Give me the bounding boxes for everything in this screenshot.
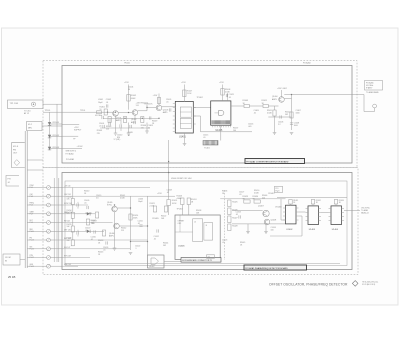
capacitor C1409 (86, 206, 88, 209)
svg-text:4.64K: 4.64K (131, 98, 136, 100)
svg-text:AMPL: AMPL (163, 111, 168, 114)
svg-text:.001: .001 (248, 126, 252, 128)
connector P1 edge lines (24, 131, 26, 268)
svg-text:CR1406: CR1406 (275, 207, 282, 209)
svg-text:TM 11-6625-2781-14-1: TM 11-6625-2781-14-1 (362, 281, 378, 283)
ground (127, 132, 131, 134)
svg-text:P1-7: P1-7 (30, 213, 33, 215)
svg-text:45.2 MHz: 45.2 MHz (95, 115, 102, 117)
wire bottom bus (65, 263, 340, 265)
svg-text:AMPL: AMPL (109, 234, 114, 237)
svg-text:P1-11: P1-11 (30, 231, 34, 233)
junction dots bottom (114, 204, 115, 205)
wire output (284, 97, 291, 99)
ground U1401 (183, 143, 187, 145)
svg-text:AMPL: AMPL (272, 98, 277, 101)
svg-text:J5 FM: J5 FM (5, 257, 11, 259)
wire mid vertical (147, 196, 149, 255)
capacitor C1444 (129, 125, 131, 128)
wire (148, 195, 176, 197)
capacitor C1401 (101, 116, 103, 119)
stub wires 2 (77, 202, 79, 204)
resistor R1405 (157, 98, 160, 104)
svg-text:.01: .01 (229, 97, 232, 99)
svg-text:+15V: +15V (124, 82, 129, 84)
svg-text:R1425: R1425 (232, 202, 237, 204)
wire attenuator out (42, 125, 62, 127)
pins U1402 (283, 207, 286, 209)
wire U1405 out (231, 105, 244, 107)
transistor Q1408 (264, 219, 270, 225)
svg-text:+15V: +15V (181, 82, 186, 84)
pins U1404 (329, 208, 332, 210)
svg-text:P/O A2A5 PHASE/FREQ DETECTOR B: P/O A2A5 PHASE/FREQ DETECTOR BOARD (245, 267, 288, 270)
outer dashed boundary top section (43, 61, 357, 168)
op-amp U1401 (175, 101, 193, 133)
wire (27, 169, 43, 171)
svg-text:10µH: 10µH (98, 102, 103, 104)
wire lower bus (100, 127, 150, 129)
svg-text:100: 100 (271, 230, 274, 232)
svg-text:TP101: TP101 (80, 110, 85, 112)
diamond symbol FM out (14, 160, 20, 166)
svg-text:U1407: U1407 (149, 266, 155, 268)
wire U1404 out (344, 210, 360, 212)
svg-text:.01: .01 (148, 127, 151, 129)
stub wires (109, 118, 111, 122)
svg-text:P/O A2A5: P/O A2A5 (66, 158, 74, 161)
wire (164, 261, 181, 263)
FM output bracket J3 (12, 143, 25, 168)
svg-text:.01: .01 (84, 203, 87, 205)
resistor R1431 (289, 200, 292, 205)
svg-text:2.15K: 2.15K (150, 205, 155, 207)
svg-text:SYNC 142: SYNC 142 (64, 203, 72, 205)
svg-text:AT J2: AT J2 (24, 112, 30, 115)
wire (27, 265, 46, 267)
svg-text:U1404: U1404 (332, 229, 339, 231)
terminal TP1 (31, 102, 35, 106)
wire (72, 188, 74, 199)
svg-text:.01: .01 (236, 214, 239, 216)
svg-text:4.64K: 4.64K (254, 193, 259, 195)
wire Q1402 out (138, 110, 147, 112)
resistor R1423 (181, 198, 184, 205)
svg-text:.01: .01 (85, 230, 88, 232)
wire (232, 223, 286, 225)
capacitor C1412 (156, 229, 158, 232)
resistor R1445b (108, 117, 111, 123)
svg-text:TP1402: TP1402 (197, 97, 203, 99)
wire (158, 94, 160, 106)
wire inter-section (168, 140, 170, 181)
terminal circle (373, 104, 377, 108)
resistor R1403 (104, 109, 107, 115)
resistor R1420 (129, 214, 132, 220)
svg-text:TP101: TP101 (45, 110, 52, 112)
svg-text:P/O: P/O (8, 179, 12, 181)
wire (50, 136, 63, 138)
svg-text:MOTHERBOARD CONNECTOR P1: MOTHERBOARD CONNECTOR P1 (182, 259, 212, 262)
svg-text:51: 51 (100, 109, 102, 111)
wire lower bus (201, 131, 253, 133)
resistor R1402 (127, 95, 130, 102)
wire (128, 123, 130, 134)
svg-text:P1-1: P1-1 (30, 187, 33, 189)
svg-text:.01: .01 (222, 242, 225, 244)
wire (147, 106, 156, 108)
wire (27, 230, 46, 232)
svg-text:4.64K: 4.64K (133, 218, 138, 220)
transistor Q1406 (114, 223, 120, 229)
svg-text:+5V 140: +5V 140 (64, 186, 70, 188)
svg-text:Y1401: Y1401 (204, 147, 211, 149)
svg-text:1000: 1000 (296, 113, 300, 115)
diode CR1402 (48, 135, 51, 138)
svg-text:SUPPLY: SUPPLY (74, 130, 82, 132)
svg-text:R1406 1K: R1406 1K (145, 104, 154, 106)
svg-text:562: 562 (163, 245, 166, 247)
svg-text:25 1B: 25 1B (8, 275, 15, 279)
svg-text:DET 145: DET 145 (64, 229, 71, 231)
inductor L1401 (97, 111, 102, 114)
capacitor C1403 (148, 116, 150, 119)
svg-text:.1: .1 (135, 248, 137, 250)
svg-text:P/O A2A4: P/O A2A4 (66, 152, 74, 155)
svg-text:215: 215 (97, 133, 100, 135)
diode CR1403 (48, 147, 51, 150)
wire (168, 206, 170, 216)
wire (290, 204, 292, 205)
svg-text:TP1401: TP1401 (124, 63, 130, 65)
diode CR1405b (87, 230, 90, 233)
terminal J1-1 (47, 186, 51, 190)
svg-text:CR1407: CR1407 (268, 193, 275, 195)
wire (117, 207, 130, 209)
IC U1402 (286, 205, 297, 224)
svg-text:P/O A2A4: P/O A2A4 (303, 62, 310, 65)
wire (27, 204, 46, 206)
svg-text:.01: .01 (239, 194, 242, 196)
wire (119, 225, 147, 227)
svg-text:2.2: 2.2 (278, 124, 281, 126)
svg-text:100: 100 (233, 130, 236, 132)
wire (115, 116, 117, 133)
svg-text:TO A2A9 XA2A5: TO A2A9 XA2A5 (366, 91, 379, 94)
wire diode column (49, 112, 51, 150)
svg-text:.01: .01 (91, 239, 94, 241)
svg-text:U1401: U1401 (179, 136, 186, 138)
IC U1406 (175, 215, 220, 259)
IC U1404 (331, 206, 342, 225)
svg-text:OSC 141: OSC 141 (64, 194, 71, 196)
destination info box (365, 81, 383, 91)
capacitor C1441 (108, 122, 110, 125)
svg-text:455 K: 455 K (13, 146, 19, 148)
wire supply Q1404 (281, 90, 283, 97)
terminal J1-11 (47, 229, 51, 233)
terminal J1-17 (47, 256, 51, 260)
svg-text:Q1408: Q1408 (271, 220, 277, 222)
wire out to edge (284, 94, 364, 96)
resistor R1418 (102, 230, 105, 236)
svg-text:R1428: R1428 (232, 226, 237, 228)
wire supply (128, 85, 130, 110)
svg-text:U1403: U1403 (309, 229, 316, 231)
input jack box TP1 (8, 100, 44, 109)
capacitor C1424 (76, 203, 78, 206)
svg-text:MHz: MHz (28, 128, 32, 130)
svg-text:+15V L1402: +15V L1402 (277, 88, 287, 90)
capacitor C1421 (226, 93, 228, 101)
sheet ref box (275, 186, 283, 192)
svg-text:U1406: U1406 (178, 246, 185, 248)
wire exit to A2A9 (363, 95, 365, 112)
svg-text:SEE NOTE 4: SEE NOTE 4 (66, 151, 77, 153)
svg-text:2.15K: 2.15K (187, 93, 192, 95)
wire (50, 148, 63, 150)
wire (27, 248, 46, 250)
ground (113, 247, 117, 249)
bracket J4 (6, 176, 19, 187)
svg-text:P1-15: P1-15 (30, 248, 34, 250)
capacitor C1442 (133, 121, 135, 124)
resistor column R1413-R1416 (71, 199, 74, 205)
wire (27, 257, 46, 259)
capacitor C1426 (105, 241, 107, 244)
svg-text:OFFSET OSCILLATOR, PHASE/FREQ: OFFSET OSCILLATOR, PHASE/FREQ DETECTOR (269, 283, 348, 287)
wires entry routing (62, 187, 150, 189)
svg-text:P1-17: P1-17 (30, 257, 34, 259)
svg-text:4.64K: 4.64K (177, 198, 183, 200)
capacitor C1405 (168, 108, 170, 111)
svg-text:REF: REF (30, 229, 33, 231)
resistor R1407 (183, 90, 186, 97)
wire vertical bus 2 (53, 178, 55, 262)
svg-text:562: 562 (285, 114, 288, 116)
wire (232, 210, 263, 212)
svg-text:+12.6V: +12.6V (77, 146, 84, 148)
wire (27, 159, 43, 161)
svg-text:P1-13: P1-13 (30, 240, 34, 242)
wire Q1403 to U1401 (162, 106, 176, 108)
svg-text:56: 56 (128, 89, 130, 91)
svg-text:215: 215 (106, 128, 109, 130)
ground (129, 252, 133, 254)
capacitor C1402 (105, 104, 107, 107)
svg-text:IF ASSY: IF ASSY (366, 86, 373, 89)
terminal J1-7 (47, 212, 51, 216)
wire +12.6V entry (62, 147, 82, 149)
resistor R1419 (167, 200, 170, 206)
bottom board outer box A2A5 (62, 173, 352, 270)
wire (335, 204, 337, 206)
svg-text:17 (24L): 17 (24L) (114, 139, 121, 141)
wire (181, 205, 183, 216)
wire dashed partition (224, 190, 226, 260)
wire emitter bus (103, 117, 159, 119)
wire U1405 down (220, 125, 222, 140)
supply wire U1401 (183, 85, 185, 102)
svg-text:.01: .01 (154, 239, 157, 241)
terminal J1-19 (47, 264, 51, 268)
resistor R1406 (141, 117, 144, 123)
capacitor C1411 (139, 224, 142, 226)
svg-text:XA2A5-12: XA2A5-12 (361, 212, 369, 215)
resistor R1411 (263, 104, 268, 107)
ground (264, 231, 268, 233)
title diamond (352, 281, 358, 287)
svg-text:P1-3: P1-3 (30, 196, 33, 198)
diode CR1401 (48, 122, 51, 125)
svg-text:215: 215 (121, 230, 124, 232)
wire U1402-U1403 (299, 211, 306, 213)
svg-text:FM: FM (13, 149, 16, 151)
terminal J1-9 (47, 221, 51, 225)
terminal J1-3 (47, 194, 51, 198)
svg-text:215: 215 (262, 198, 265, 200)
ground (246, 231, 250, 233)
svg-text:R1427: R1427 (232, 218, 237, 220)
svg-text:.01: .01 (138, 223, 141, 225)
svg-text:U1402: U1402 (286, 229, 293, 231)
wire U1403-U1404 (321, 212, 329, 214)
pins U1401 right (193, 107, 196, 109)
wire input to Q1401 (62, 111, 113, 113)
resistor R1424 (187, 198, 190, 205)
svg-text:.01: .01 (203, 137, 206, 139)
svg-text:10µH: 10µH (138, 201, 143, 203)
transistor Q1404 (279, 97, 285, 103)
wire U1401 out (193, 107, 210, 109)
diode CR1404 (87, 212, 90, 215)
resistor R1410 (290, 112, 293, 118)
svg-text:4.64K: 4.64K (267, 113, 272, 115)
capacitor C1408 (290, 122, 293, 124)
svg-text:+15V: +15V (157, 193, 162, 195)
connector label bar (181, 258, 221, 263)
capacitor C1406 (279, 115, 281, 118)
svg-text:P1-9: P1-9 (30, 222, 33, 224)
wire supply (168, 181, 170, 200)
wire (50, 123, 63, 125)
resistor column R1425-R1428 (228, 200, 231, 207)
pins U1405 bottom (212, 125, 214, 127)
svg-text:.01: .01 (166, 101, 169, 103)
svg-text:Fig 8: Fig 8 (276, 190, 280, 192)
resistor R1409 (244, 104, 249, 107)
wire feedback (281, 219, 286, 221)
svg-text:9.1: 9.1 (208, 257, 210, 259)
svg-text:.01: .01 (167, 192, 170, 194)
capacitor C1440 (119, 124, 121, 127)
svg-text:RTN 148: RTN 148 (64, 256, 71, 258)
wire J5 to connector (20, 259, 25, 261)
svg-text:.01: .01 (128, 135, 131, 137)
svg-text:SIG 147: SIG 147 (64, 247, 70, 249)
svg-text:+15V: +15V (153, 95, 158, 97)
svg-text:GND 149: GND 149 (64, 264, 71, 266)
wire (131, 241, 148, 243)
wire +5V bus (277, 197, 347, 199)
svg-text:.01: .01 (103, 250, 106, 252)
resistor R1447 (86, 219, 89, 225)
resistor R1417 (95, 212, 98, 218)
flip-flop U1405 (211, 101, 231, 125)
svg-text:TP1 51Ω: TP1 51Ω (10, 103, 19, 105)
resistor R1412 (273, 110, 276, 116)
wire (299, 215, 303, 217)
top board box A2A4 (62, 66, 352, 164)
wire +15V supply entry (62, 124, 79, 126)
ground (114, 132, 118, 134)
svg-text:TP1403: TP1403 (177, 209, 183, 211)
svg-text:+15V: +15V (219, 82, 224, 84)
wire Q1401 collector (118, 112, 132, 114)
transistor Q1402 (132, 110, 138, 116)
resistor R1404 (123, 117, 126, 123)
terminal J1-15 (47, 247, 51, 251)
wire (268, 105, 278, 107)
crystal Y1401 (203, 141, 218, 146)
wire (312, 204, 314, 206)
attenuator box AT1 (27, 122, 43, 131)
wire (27, 239, 46, 241)
transistor Q1401 (113, 111, 119, 117)
svg-text:1000: 1000 (294, 125, 298, 127)
wire TP1 to board (43, 103, 62, 105)
supply wire U1405 (222, 85, 224, 101)
svg-text:16.5K: 16.5K (172, 203, 177, 205)
wire (220, 198, 285, 200)
wire vertical bus (56, 104, 58, 262)
terminal J1-13 (47, 238, 51, 242)
ground (145, 130, 149, 132)
svg-text:CR1405: CR1405 (152, 218, 159, 220)
wire entry (62, 135, 78, 137)
wire (27, 187, 46, 189)
svg-text:AMPL: AMPL (116, 119, 121, 122)
svg-text:Q1407: Q1407 (258, 206, 264, 208)
wire (146, 123, 148, 132)
resistor R1429 (244, 200, 250, 203)
svg-text:FREQ: FREQ (30, 203, 35, 205)
svg-text:U1406 OFFSET OSC 1404: U1406 OFFSET OSC 1404 (171, 178, 191, 180)
hatch strip U1405 (211, 120, 213, 124)
ground (290, 132, 294, 134)
svg-text:P1-5: P1-5 (30, 205, 33, 207)
wire (249, 105, 263, 107)
svg-text:GATE 143: GATE 143 (64, 211, 72, 214)
wire (268, 116, 291, 118)
svg-text:215: 215 (141, 127, 144, 129)
svg-text:.01: .01 (106, 102, 109, 104)
terminal J1-5 (47, 203, 51, 207)
svg-text:5.6: 5.6 (96, 198, 99, 200)
svg-text:DET: DET (30, 220, 33, 222)
svg-text:P/O A2A4 CONVERTER DETECTOR BO: P/O A2A4 CONVERTER DETECTOR BOARD (246, 160, 289, 163)
board label PHASE FREQ DETECTOR (244, 265, 307, 270)
bottom board inner box (65, 181, 347, 266)
IC U1403 (308, 206, 319, 225)
svg-text:FM 144: FM 144 (64, 221, 70, 223)
pins U1403 (306, 208, 309, 210)
outer dashed boundary bottom section (43, 168, 358, 275)
svg-text:P1-19: P1-19 (30, 266, 34, 268)
wire input 45.2MHz (43, 111, 62, 113)
resistor R1433 (334, 200, 337, 205)
junction dots (115, 112, 116, 113)
